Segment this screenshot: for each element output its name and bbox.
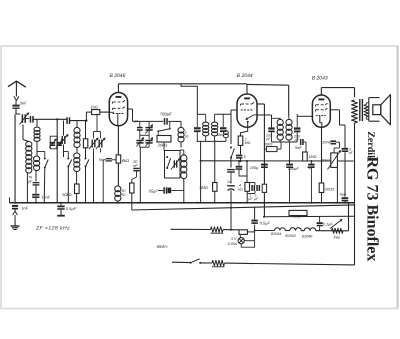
svg-text:780pF: 780pF (160, 112, 172, 117)
svg-text:nF: nF (133, 164, 138, 168)
svg-text:500Ω: 500Ω (325, 188, 334, 192)
svg-text:20nF: 20nF (321, 141, 331, 145)
svg-text:B2044: B2044 (271, 232, 281, 236)
svg-text:3MΩ: 3MΩ (199, 185, 208, 190)
svg-text:B 2044: B 2044 (237, 73, 253, 79)
svg-text:0,05A: 0,05A (228, 242, 238, 246)
svg-text:19Ω: 19Ω (90, 104, 98, 109)
svg-text:50kΩ: 50kΩ (62, 192, 71, 197)
svg-text:20kΩ: 20kΩ (157, 143, 168, 148)
svg-text:5 V: 5 V (231, 237, 237, 241)
svg-text:1MΩ: 1MΩ (308, 155, 316, 159)
svg-text:2kΩ: 2kΩ (293, 215, 301, 219)
svg-text:kΩ: kΩ (238, 187, 243, 191)
svg-text:4µF: 4µF (340, 192, 347, 196)
svg-text:20kΩ: 20kΩ (320, 158, 330, 162)
svg-text:5nF: 5nF (295, 146, 302, 150)
svg-text:15nF: 15nF (41, 194, 51, 199)
svg-text:3nF: 3nF (20, 101, 27, 106)
svg-text:B2046: B2046 (302, 234, 312, 238)
svg-text:0,1µF: 0,1µF (323, 223, 333, 227)
svg-text:B 2046: B 2046 (110, 73, 126, 79)
svg-text:6kΩ: 6kΩ (122, 158, 129, 163)
svg-text:0,5µF: 0,5µF (66, 206, 77, 211)
svg-text:05µF: 05µF (149, 189, 159, 194)
svg-text:7a: 7a (227, 180, 231, 184)
svg-text:MΩ: MΩ (245, 141, 251, 145)
svg-text:5000: 5000 (217, 133, 224, 137)
svg-text:0,5µF: 0,5µF (260, 220, 271, 225)
svg-text:2MΩ: 2MΩ (263, 143, 272, 147)
svg-text:pF: pF (27, 179, 33, 183)
svg-text:Feu: Feu (334, 236, 341, 240)
svg-text:B2043: B2043 (285, 234, 295, 238)
svg-text:100µ: 100µ (250, 166, 259, 170)
svg-text:1nF: 1nF (21, 205, 28, 210)
svg-text:5n: 5n (99, 158, 103, 162)
svg-text:50: 50 (121, 193, 125, 197)
svg-text:00: 00 (185, 134, 189, 138)
svg-text:B 2043: B 2043 (312, 76, 328, 82)
svg-text:ZF =128 kHz: ZF =128 kHz (35, 225, 70, 231)
svg-text:RG 73 Binoflex: RG 73 Binoflex (364, 157, 381, 262)
